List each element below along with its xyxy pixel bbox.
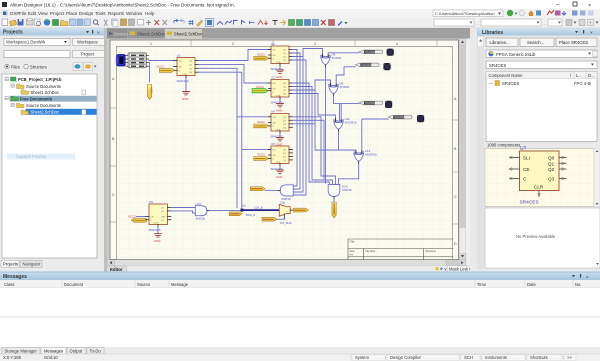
svg-text:XNOR2b: XNOR2b	[365, 152, 377, 156]
TITLE BAR	[0, 0, 600, 9]
port P4 VCC	[254, 120, 269, 128]
svg-text:CE: CE	[151, 217, 155, 219]
svg-text:CLR: CLR	[276, 162, 281, 164]
buttons	[486, 38, 518, 47]
MENU BAR	[0, 9, 600, 18]
svg-text:Search...: Search...	[527, 40, 544, 45]
svg-text:Window: Window	[126, 11, 143, 16]
svg-text:Workspace: Workspace	[77, 40, 99, 45]
preview area	[485, 149, 594, 207]
port P6 VCC	[128, 214, 147, 222]
and gate U15 AND2	[195, 202, 209, 221]
svg-text:SLI: SLI	[273, 150, 277, 152]
svg-text:System: System	[355, 355, 369, 360]
svg-text:Q3: Q3	[548, 177, 555, 182]
svg-text:CLR: CLR	[183, 74, 188, 76]
wire xor3 right in up	[340, 104, 342, 119]
svg-text:AND4b: AND4b	[342, 188, 352, 192]
svg-text:Message: Message	[171, 282, 189, 287]
svg-text:SLI: SLI	[273, 117, 277, 119]
svg-text:SLI: SLI	[273, 50, 277, 52]
svg-text:1096 components: 1096 components	[487, 143, 520, 148]
svg-text:U6: U6	[149, 200, 153, 204]
workspace combo	[4, 39, 70, 46]
buffer U10	[279, 200, 293, 225]
ground GND U3	[276, 100, 284, 113]
wire xor4 out to and4d in4	[339, 164, 359, 185]
wire U3.Q2 to xor4 left	[293, 90, 356, 152]
wire U1.Q1 to U3.SLI	[199, 64, 269, 83]
svg-text:12d: 12d	[241, 203, 246, 207]
xor gate U11	[334, 117, 357, 132]
svg-text:CE: CE	[523, 167, 529, 172]
svg-text:Project: Project	[81, 52, 95, 57]
svg-text:CLR: CLR	[154, 223, 159, 225]
buzzer B1	[387, 49, 394, 56]
wire P9 to U10 bottom	[277, 218, 285, 220]
svg-text:Source: Source	[137, 282, 151, 287]
svg-text:Edit: Edit	[28, 11, 37, 16]
wire U4.Q0 to and4d in3	[293, 117, 336, 185]
port P10	[250, 187, 265, 191]
svg-text:1: 1	[150, 42, 152, 46]
svg-text:CLR: CLR	[276, 95, 281, 97]
svg-text:>>: >>	[567, 355, 572, 360]
svg-text:C: C	[112, 193, 115, 197]
svg-text:Source Documents: Source Documents	[26, 84, 61, 89]
svg-text:...: ...	[476, 21, 479, 26]
RIGHT PANEL : Libraries	[470, 28, 600, 272]
svg-text:Help: Help	[145, 11, 155, 16]
wire U3.Q1 to and4d in2	[293, 87, 333, 185]
svg-text:L...: L...	[576, 73, 582, 78]
xor gate U8	[329, 82, 350, 97]
port P5 VCC	[254, 153, 269, 161]
dip switch S1	[126, 53, 149, 68]
horizontal scrollbar	[107, 260, 466, 267]
svg-text:Libraries: Libraries	[482, 30, 503, 36]
svg-text:Projects: Projects	[3, 30, 23, 36]
editor bottom row	[107, 266, 470, 273]
wire xor1 out down	[325, 68, 327, 184]
TOOLBAR	[0, 18, 600, 29]
svg-text:×: ×	[97, 30, 100, 35]
svg-text:View: View	[38, 11, 49, 16]
IC U2 SR4CES	[268, 42, 292, 66]
svg-text:No.: No.	[575, 282, 582, 287]
svg-text:U1: U1	[177, 54, 181, 58]
wire U4.Q2 to xor2 left	[293, 80, 331, 124]
ground GND U6	[154, 228, 162, 243]
wire U2.Q0 bundle	[293, 50, 298, 187]
svg-text:FPGA Generic.IntLib: FPGA Generic.IntLib	[496, 52, 536, 57]
xor gate U12	[354, 149, 377, 164]
svg-text:Projects: Projects	[3, 262, 18, 267]
port PV1 vertical	[148, 85, 154, 100]
svg-text:No Preview Available: No Preview Available	[516, 234, 556, 239]
wire U6.Q0 to and2	[171, 207, 195, 209]
bottom tabs	[1, 261, 19, 268]
wire U3.Q0 to and4d in1	[293, 83, 330, 185]
no preview box	[485, 208, 600, 268]
wire and2 out long	[210, 209, 242, 211]
wire U3.Q3 to xor3 left	[293, 94, 336, 121]
svg-text:C: C	[454, 195, 457, 199]
svg-text:Storage Manager: Storage Manager	[5, 349, 38, 354]
svg-text:Instruments: Instruments	[485, 355, 507, 360]
wire dip to port PV1	[149, 63, 151, 82]
svg-text:Q1: Q1	[548, 161, 555, 166]
svg-text:Component Name: Component Name	[489, 73, 524, 78]
svg-text:U15: U15	[196, 202, 202, 206]
tree box	[2, 74, 97, 258]
wire xor3 out down	[338, 132, 340, 150]
svg-text:VCC2: VCC2	[257, 153, 265, 157]
wire branch to U5.SLI	[242, 148, 269, 150]
wire and4l out to port P10	[265, 189, 277, 191]
svg-text:VCC: VCC	[150, 87, 154, 94]
wire and4d out to port P11	[333, 200, 335, 203]
IC U5 SR4CES	[268, 142, 292, 166]
svg-text:FPG 4-Bi: FPG 4-Bi	[574, 81, 591, 86]
wire P6 to U6	[137, 216, 146, 218]
free documents row	[10, 96, 97, 102]
svg-text:Sheet2.SchDoc: Sheet2.SchDoc	[174, 32, 202, 37]
svg-text:XOR2b: XOR2b	[332, 56, 342, 60]
svg-text:Messages: Messages	[44, 349, 63, 354]
svg-text:VCC2: VCC2	[257, 52, 265, 56]
svg-text:Mask Level: Mask Level	[449, 266, 470, 271]
combo 2	[486, 61, 597, 69]
probe TG4	[388, 115, 412, 119]
svg-text:Class: Class	[4, 282, 14, 287]
wire U1 clr to gnd	[185, 79, 187, 92]
svg-text:Shortcuts: Shortcuts	[530, 355, 548, 360]
svg-text:To-Do: To-Do	[90, 349, 102, 354]
svg-text:VCC2: VCC2	[257, 120, 265, 124]
svg-text:Structure: Structure	[30, 65, 48, 70]
svg-text:Devices: Devices	[114, 32, 129, 37]
svg-text:Reports: Reports	[108, 11, 125, 16]
svg-text:Y: Y	[444, 267, 447, 272]
wire xor2 right in to probe2	[336, 67, 355, 83]
wire U4.Q1 down	[293, 120, 325, 179]
svg-text:Time: Time	[477, 282, 487, 287]
svg-text:D: D	[454, 242, 457, 246]
svg-text:...: ...	[543, 21, 546, 26]
sheet with ruler band	[110, 40, 459, 260]
svg-text:Grid:10: Grid:10	[44, 355, 58, 360]
port P3 green	[252, 85, 267, 93]
svg-text:Sheet1.SchDoc: Sheet1.SchDoc	[137, 32, 165, 37]
svg-text:CLR: CLR	[276, 129, 281, 131]
svg-text:SLI: SLI	[179, 61, 183, 63]
wire U2.Q3 bundle	[293, 60, 307, 195]
BOTTOM TABS	[0, 347, 600, 355]
svg-text:×: ×	[586, 275, 589, 280]
capture tooltip	[7, 154, 75, 160]
wire U2.Q2 bundle	[293, 57, 304, 193]
svg-text:Sheet2.SchDoc: Sheet2.SchDoc	[31, 110, 59, 115]
IC U4 SR4CES	[268, 110, 292, 134]
SCHEMATIC CANVAS	[107, 39, 459, 260]
wire xor1 left feed	[303, 49, 323, 57]
svg-text:SLI: SLI	[273, 83, 277, 85]
svg-text:CLR: CLR	[276, 62, 281, 64]
svg-text:Q2: Q2	[548, 167, 555, 172]
bus wire to U10	[243, 209, 279, 211]
svg-text:Document: Document	[64, 282, 84, 287]
ground GND U1	[182, 92, 190, 102]
port P9	[262, 217, 277, 221]
port P1 VCC	[157, 65, 175, 73]
splitter	[104, 28, 107, 272]
wire branch to U4.SLI	[237, 116, 269, 118]
svg-text:Navigator: Navigator	[23, 262, 42, 267]
svg-text:File: File	[19, 11, 27, 16]
schematic content inserted here	[116, 42, 453, 259]
svg-text:SR4CES: SR4CES	[489, 63, 506, 68]
svg-text:SR4CES: SR4CES	[502, 81, 519, 86]
svg-text:Free Documents: Free Documents	[20, 96, 53, 101]
svg-text:BUS_N: BUS_N	[246, 213, 255, 217]
svg-text:Number: Number	[366, 249, 376, 253]
vertical scrollbar	[459, 39, 466, 260]
svg-text:SR4CES: SR4CES	[177, 79, 189, 83]
svg-text:×: ×	[590, 30, 593, 35]
EDITOR AREA	[107, 28, 479, 273]
svg-text:Source Documents: Source Documents	[26, 103, 61, 108]
svg-text:Revision: Revision	[426, 249, 437, 253]
svg-text:Design: Design	[79, 11, 94, 16]
IC U1 SR4CES	[174, 54, 199, 79]
IC U3 SR4CES	[268, 76, 293, 100]
svg-text:CE: CE	[179, 67, 183, 69]
svg-text:XOR2b: XOR2b	[340, 85, 350, 89]
port P2 VCC	[254, 52, 269, 60]
svg-text:Editor: Editor	[110, 267, 123, 272]
svg-text:Altium Designer (16.1) - C:\Us: Altium Designer (16.1) - C:\Users\Altium…	[10, 2, 235, 7]
svg-text:SR4CES: SR4CES	[149, 228, 161, 232]
svg-text:Project: Project	[50, 11, 65, 16]
svg-text:CE: CE	[273, 155, 277, 157]
wire probe4 feed	[362, 119, 388, 152]
ground GND U4	[276, 134, 284, 147]
svg-text:Place SR4CES: Place SR4CES	[559, 40, 588, 45]
and gate U14 down-pointing	[328, 185, 352, 200]
probe TG3	[359, 101, 383, 105]
svg-text:C:\Users\Altium7\Desktop\Antho: C:\Users\Altium7\Desktop\Anthon	[435, 11, 495, 16]
svg-text:SR4CES: SR4CES	[520, 200, 539, 206]
LEFT PANEL : Projects	[0, 28, 107, 272]
svg-text:CE: CE	[273, 55, 277, 57]
wire U2.Q1 bundle	[293, 53, 301, 189]
and gate U13 left-pointing	[277, 185, 293, 201]
wire U1.Q2 down long	[199, 68, 238, 207]
svg-text:Workspace1.DsnWrk: Workspace1.DsnWrk	[6, 40, 46, 45]
svg-text:TG2 DIGITAL: TG2 DIGITAL	[361, 64, 376, 67]
svg-text:NO_BUS: NO_BUS	[280, 221, 292, 225]
STATUS BAR	[0, 354, 600, 361]
buzzer B4	[417, 115, 424, 122]
wire U6.Q1 to and2	[171, 211, 195, 213]
svg-text:Design Compiler: Design Compiler	[390, 355, 422, 360]
wire U1.Q0 to U2.SLI	[199, 50, 269, 61]
svg-text:X:0 Y:280: X:0 Y:280	[3, 355, 22, 360]
svg-text:SLI: SLI	[523, 156, 530, 161]
probe TG2	[355, 63, 379, 67]
probe TG1	[359, 50, 383, 54]
svg-text:Files: Files	[11, 65, 20, 70]
buzzer B3	[385, 101, 392, 108]
svg-text:GND: GND	[276, 109, 282, 113]
radios	[5, 64, 9, 68]
svg-text:D...: D...	[588, 73, 595, 78]
svg-text:TG3 DIGITAL: TG3 DIGITAL	[365, 102, 380, 105]
xor gate U9	[321, 53, 342, 68]
svg-text:2: 2	[232, 42, 234, 46]
svg-text:Date: Date	[527, 282, 537, 287]
svg-text:Place: Place	[66, 11, 78, 16]
svg-text:Output: Output	[70, 349, 83, 354]
svg-text:VCC2: VCC2	[128, 214, 136, 218]
svg-text:Capture Fenêtre: Capture Fenêtre	[16, 154, 47, 159]
buzzer B2	[383, 63, 390, 70]
svg-text:PCB_Project_1.PrjPcb: PCB_Project_1.PrjPcb	[18, 77, 62, 82]
svg-text:CE: CE	[273, 89, 277, 91]
svg-text:Sheet1.SchDoc: Sheet1.SchDoc	[31, 90, 59, 95]
MESSAGES PANEL	[0, 272, 600, 347]
table	[486, 72, 597, 142]
wire U1.Q3 down long	[199, 72, 242, 208]
port P8	[294, 208, 309, 212]
port P7	[229, 212, 242, 216]
svg-text:GND: GND	[276, 175, 282, 179]
ground GND U5	[276, 167, 284, 180]
tab bar	[107, 28, 470, 39]
ruler ticks & labels	[110, 40, 459, 246]
svg-text:CLK_B: CLK_B	[254, 206, 263, 210]
svg-text:13b: 13b	[280, 200, 285, 204]
svg-text:A4: A4	[350, 253, 354, 257]
title block	[348, 239, 453, 260]
svg-text:4: 4	[396, 42, 398, 46]
svg-text:Messages: Messages	[3, 274, 27, 280]
svg-text:CLR: CLR	[534, 185, 544, 190]
combo 1	[486, 50, 597, 58]
svg-text:GND: GND	[154, 239, 160, 243]
connector J1	[116, 55, 125, 67]
svg-text:TG1 DIGITAL: TG1 DIGITAL	[365, 51, 380, 54]
ground GND U2	[276, 67, 284, 80]
svg-text:GND: GND	[276, 75, 282, 79]
svg-text:SCH: SCH	[464, 355, 473, 360]
svg-text:TG4 DIGITAL: TG4 DIGITAL	[394, 116, 409, 119]
svg-text:Title: Title	[350, 240, 356, 244]
svg-text:×: ×	[588, 3, 591, 9]
svg-text:Libraries...: Libraries...	[490, 40, 510, 45]
port P11 vertical	[332, 202, 336, 218]
svg-text:AND2b: AND2b	[196, 216, 206, 220]
node bus junction	[240, 203, 263, 217]
svg-text:3: 3	[314, 42, 316, 46]
wire xor2 out to probe3 and xor3	[334, 97, 360, 121]
svg-text:CE: CE	[273, 123, 277, 125]
svg-text:Q0: Q0	[548, 156, 555, 161]
left mini scrollbar	[477, 36, 484, 270]
wire xor1 right in to probe1	[328, 53, 359, 54]
svg-text:GND: GND	[182, 97, 188, 101]
svg-text:Tools: Tools	[95, 11, 106, 16]
svg-text:XNOR2b: XNOR2b	[345, 120, 357, 124]
wire dip to U1	[149, 60, 174, 62]
IC U6	[146, 200, 172, 228]
